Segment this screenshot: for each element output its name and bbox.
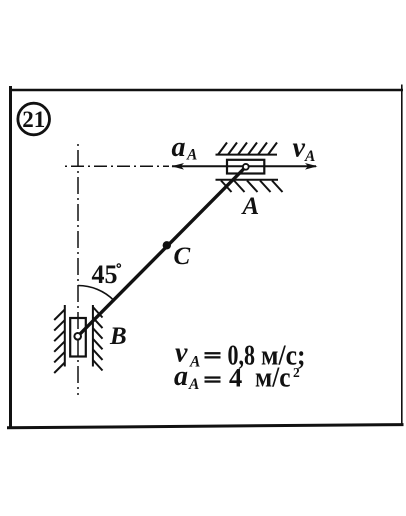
- velocity arrow v_A (pointing right): [305, 163, 318, 170]
- slider block A: [227, 160, 264, 174]
- problem number circle 21: [18, 103, 50, 135]
- given data line 1: v_A = 0,8 m/s: [175, 338, 306, 372]
- right hatched wall of slider B guide: [93, 305, 103, 371]
- slider block B: [70, 318, 86, 357]
- svg-text:4: 4: [229, 363, 242, 393]
- pin B: [74, 333, 81, 340]
- svg-text:A: A: [241, 193, 260, 220]
- vertical centerline (dash-dot axis of slider B): [77, 142, 79, 395]
- frame right border: [401, 85, 403, 427]
- svg-text:C: C: [174, 243, 191, 270]
- svg-text:A: A: [189, 354, 200, 371]
- frame left border: [9, 86, 12, 429]
- svg-text:v: v: [293, 133, 306, 164]
- top hatched support wall of slider A: [216, 143, 278, 155]
- frame bottom border: [7, 425, 404, 428]
- svg-text:a: a: [174, 361, 188, 392]
- 45 degree arc: [78, 286, 114, 301]
- svg-text:A: A: [304, 148, 315, 165]
- svg-text:a: a: [172, 132, 186, 163]
- svg-text:A: A: [186, 147, 197, 164]
- svg-text:2: 2: [293, 365, 300, 380]
- connecting rod BA: [78, 167, 246, 336]
- frame top border: [9, 89, 403, 91]
- horizontal centerline (dash-dot): [63, 165, 169, 167]
- pin A: [243, 164, 249, 170]
- acceleration arrow a_A (pointing left): [172, 163, 185, 170]
- svg-text:A: A: [188, 376, 199, 393]
- svg-text:м/с: м/с: [255, 363, 291, 394]
- svg-text:45: 45: [92, 260, 118, 289]
- svg-text:B: B: [109, 323, 127, 350]
- guide rail line through slider A: [172, 165, 316, 167]
- point C dot: [163, 241, 171, 249]
- svg-text:21: 21: [22, 107, 45, 132]
- bottom hatched support wall of slider A: [216, 180, 283, 192]
- left hatched wall of slider B guide: [54, 305, 65, 373]
- given data line 2: a_A = 4 m/s^2: [174, 361, 300, 394]
